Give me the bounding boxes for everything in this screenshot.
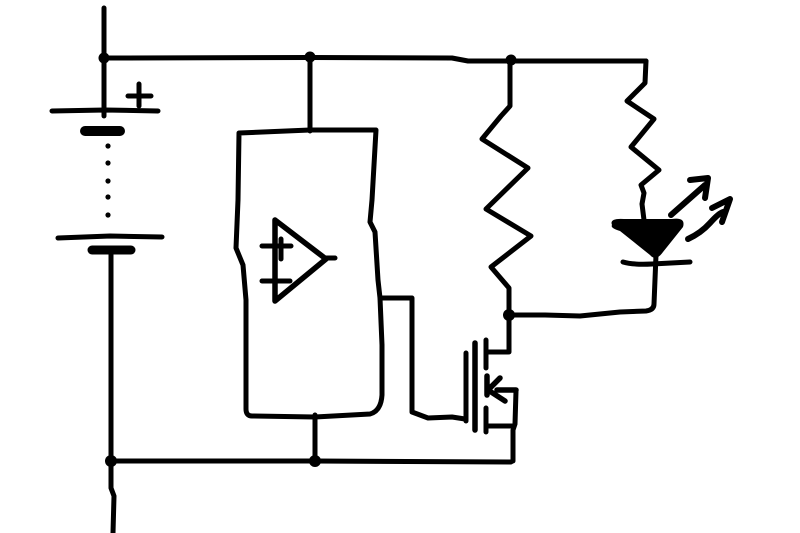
wire Q1 drain to node [507,318,512,352]
op-amp minus input [262,279,290,284]
op-amp U1 package outline [236,130,382,417]
LED D1 cathode bar [623,262,690,264]
transistor Q1 body stub and arrow [487,376,516,401]
LED arrow 2 [688,199,730,239]
transistor Q1 source stub [486,408,514,432]
node U1 V- junction [309,455,321,467]
op-amp triangle [275,220,326,301]
node top-left junction [99,53,110,64]
transistor Q1 gate line [464,353,469,421]
wire LED cathode to node [512,255,656,316]
resistor R2 [627,61,659,220]
wire bottom rail [111,461,511,462]
op-amp plus input [262,239,291,259]
battery dotted continuation [105,143,110,217]
wire U1 V+ pin [308,57,313,131]
wire top rail [104,58,646,62]
resistor R1 [482,61,531,312]
battery B1 bottom long plate [58,236,162,238]
LED D1 triangle [612,219,684,258]
node R1 bottom junction [503,309,515,321]
transistor Q1 channel line [472,343,478,430]
battery plus sign [128,84,151,106]
node R1 top junction [506,55,517,66]
wire battery negative vertical [111,254,114,533]
wire U1 V- pin [313,415,318,461]
wire op-amp output to gate [380,298,465,419]
wire battery positive vertical [102,8,107,116]
node U1 V+ junction [305,52,316,63]
battery B1 bottom short plate [92,246,131,255]
transistor Q1 drain stub [486,340,508,368]
wire Q1 source to bottom rail [513,391,516,461]
battery B1 top long plate [52,110,158,111]
node bottom-left junction [105,455,117,467]
LED arrow 1 [671,178,708,215]
battery B1 top short plate [85,126,120,136]
op-amp output stub [326,256,335,261]
